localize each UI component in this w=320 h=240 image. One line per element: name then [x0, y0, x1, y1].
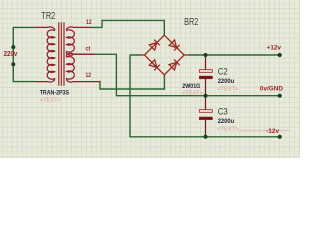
wire bridge right to +12v rail — [189, 54, 280, 56]
node 220v bottom dot — [11, 62, 15, 66]
wire bottom tap to bridge bottom — [99, 75, 164, 89]
diode D top-right — [169, 40, 180, 51]
background grid — [0, 0, 300, 158]
C2 bottom lead — [205, 79, 207, 96]
diode D top-left — [149, 40, 160, 51]
svg-text:ct: ct — [86, 46, 92, 53]
svg-text:<TEXT>: <TEXT> — [40, 98, 61, 104]
svg-text:2200u: 2200u — [218, 119, 235, 125]
bridge left pin stub — [141, 54, 145, 56]
svg-text:220v: 220v — [4, 51, 18, 58]
transformer TR2 — [35, 27, 99, 82]
wire ct to 0v rail — [94, 54, 280, 95]
secondary winding lower 12 — [66, 53, 99, 82]
wire primary loop 220v — [13, 27, 35, 81]
node junction 0v C2 C3 — [204, 94, 208, 98]
C3 bottom plate — [199, 117, 212, 120]
C3 top plate — [199, 110, 212, 113]
secondary winding upper 12 — [66, 27, 94, 55]
node junction +12v C2 — [204, 53, 208, 57]
svg-text:12: 12 — [86, 19, 92, 26]
terminal 0v/GND — [278, 94, 282, 98]
C2 bottom plate — [199, 76, 212, 79]
svg-text:<TEXT>: <TEXT> — [182, 91, 203, 97]
wire top tap to bridge top — [90, 20, 164, 35]
terminal -12v — [278, 135, 282, 139]
C2 top lead — [205, 55, 207, 70]
wire bridge left to -12v rail — [130, 55, 280, 137]
svg-text:+12v: +12v — [267, 45, 282, 52]
wire faint label guide near -12v — [238, 129, 290, 131]
svg-text:12: 12 — [86, 72, 92, 79]
node junction -12v C3 — [204, 135, 208, 139]
capacitor C3 — [199, 96, 213, 137]
C3 top lead — [205, 96, 207, 111]
svg-text:C3: C3 — [218, 106, 228, 116]
terminal +12v — [278, 53, 282, 57]
svg-text:BR2: BR2 — [184, 16, 198, 28]
C3 bottom lead — [205, 120, 207, 137]
bridge right pin stub — [184, 54, 190, 56]
svg-text:0v/GND: 0v/GND — [260, 86, 283, 93]
diode D bottom-left — [149, 60, 160, 71]
node 220v top dot — [11, 45, 15, 49]
primary winding — [35, 27, 55, 82]
svg-text:2W01G: 2W01G — [182, 83, 200, 90]
svg-text:-12v: -12v — [266, 128, 279, 135]
svg-text:TRAN-2P3S: TRAN-2P3S — [40, 90, 70, 97]
C2 top plate — [199, 70, 212, 73]
svg-text:TR2: TR2 — [41, 10, 55, 22]
capacitor C2 — [199, 55, 213, 96]
bridge rectifier BR2 — [141, 35, 191, 75]
diode D bottom-right — [169, 59, 180, 70]
svg-text:<TEXT>: <TEXT> — [218, 86, 239, 92]
svg-text:C2: C2 — [218, 66, 228, 76]
svg-text:<TEXT>: <TEXT> — [218, 126, 239, 132]
svg-text:2200u: 2200u — [218, 79, 235, 85]
bridge diamond outline — [145, 35, 185, 75]
transformer core — [59, 22, 64, 85]
